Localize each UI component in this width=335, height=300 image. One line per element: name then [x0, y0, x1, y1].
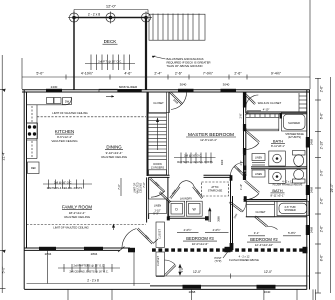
svg-text:5'-3": 5'-3"	[153, 212, 159, 216]
svg-text:4'-0½": 4'-0½"	[213, 228, 221, 232]
svg-text:2'-4": 2'-4"	[154, 72, 162, 76]
svg-text:7'-6": 7'-6"	[117, 184, 121, 190]
right dimension lines	[315, 77, 334, 293]
deck top rail	[74, 17, 146, 19]
svg-text:BATH: BATH	[273, 139, 283, 144]
svg-text:2x8 @ 16" O.C.: 2x8 @ 16" O.C.	[184, 153, 202, 157]
bedroom2 closet	[247, 201, 275, 217]
svg-text:2'-6": 2'-6"	[320, 197, 324, 204]
deck post middle	[105, 12, 117, 24]
deck post right	[140, 12, 152, 24]
svg-text:RAFTERS & CEILING JOISTS: RAFTERS & CEILING JOISTS	[47, 186, 83, 190]
svg-text:10'-0"x11'-6": 10'-0"x11'-6"	[192, 242, 209, 246]
svg-text:CLOSET: CLOSET	[157, 256, 160, 266]
attic staircase	[202, 182, 229, 196]
svg-text:VAULTED CEILING: VAULTED CEILING	[51, 139, 78, 143]
svg-text:DW: DW	[65, 100, 70, 104]
exterior walls	[22, 90, 310, 290]
bedroom3/2 wall	[231, 175, 233, 250]
hall west wall	[146, 177, 148, 222]
bath2 door diagonal	[245, 180, 260, 199]
svg-text:12'-0": 12'-0"	[264, 270, 272, 274]
bedroom3 door leaf	[209, 208, 211, 222]
top wall	[22, 89, 310, 91]
svg-text:2x8 P.T. @ 16" O.C.: 2x8 P.T. @ 16" O.C.	[98, 59, 122, 63]
svg-text:2468: 2468	[310, 138, 314, 145]
svg-text:FAMILY ROOM: FAMILY ROOM	[62, 205, 92, 210]
svg-text:WALK-IN CLOSET: WALK-IN CLOSET	[258, 101, 282, 105]
svg-text:THAN 30" ABOVE GROUND: THAN 30" ABOVE GROUND	[167, 64, 203, 68]
windows family room bottom wall	[39, 247, 103, 251]
right wall	[306, 90, 308, 290]
svg-text:2x8 RAFTERS @ 16" O.C.: 2x8 RAFTERS @ 16" O.C.	[74, 264, 105, 268]
svg-text:SHOWER: SHOWER	[284, 209, 295, 212]
linen cabinets	[252, 154, 265, 178]
windows on top wall	[46, 89, 236, 93]
bottom wall right part	[150, 285, 307, 287]
svg-text:3020: 3020	[221, 159, 224, 165]
svg-text:ATTIC: ATTIC	[211, 185, 218, 189]
svg-text:KITCHEN: KITCHEN	[55, 129, 74, 134]
bedroom2 top walls	[246, 216, 307, 218]
deck post left	[68, 12, 80, 24]
svg-text:RAFTERS & CEILING JOISTS: RAFTERS & CEILING JOISTS	[177, 160, 213, 164]
svg-text:2'-6": 2'-6"	[239, 113, 242, 118]
bedroom2 closet door	[255, 216, 278, 230]
svg-text:BATH: BATH	[272, 188, 282, 193]
svg-text:SHOWER: SHOWER	[288, 121, 300, 125]
svg-text:LIMIT OF VAULTED CEILING: LIMIT OF VAULTED CEILING	[53, 226, 89, 230]
bath1 sink vanity	[269, 151, 286, 166]
foyer closets	[156, 222, 165, 276]
deck dimension line 12'-0"	[74, 4, 148, 16]
interior stairs treads	[149, 92, 169, 175]
rafter note family room upper	[43, 180, 92, 189]
svg-text:7'-6": 7'-6"	[142, 182, 146, 188]
svg-text:4'-0½": 4'-0½"	[184, 228, 192, 232]
svg-text:2868: 2868	[189, 290, 196, 294]
svg-text:2'-8": 2'-8"	[181, 267, 184, 272]
deck right edge wall	[145, 18, 147, 91]
svg-text:(42"UNITS): (42"UNITS)	[288, 136, 301, 139]
svg-text:2'-10": 2'-10"	[240, 184, 243, 190]
svg-text:5'-8½": 5'-8½"	[288, 231, 296, 235]
svg-text:2804: 2804	[45, 252, 52, 256]
svg-text:LIMIT OF VAULTED CEILING: LIMIT OF VAULTED CEILING	[52, 111, 88, 115]
svg-text:5'-0": 5'-0"	[1, 266, 5, 274]
bedroom2 door	[229, 199, 246, 213]
stairwell left wall	[147, 92, 149, 176]
grade lines below bottom wall	[48, 250, 316, 300]
svg-text:7'-0½": 7'-0½"	[203, 72, 214, 76]
kitchen	[27, 97, 72, 159]
windows right wall	[306, 137, 310, 235]
beam dashed wall	[128, 247, 308, 254]
svg-text:9'-4½": 9'-4½"	[271, 72, 282, 76]
svg-text:2 - 2 x 8: 2 - 2 x 8	[88, 13, 100, 17]
svg-text:2'-6": 2'-6"	[175, 72, 183, 76]
deck joist note	[85, 55, 135, 71]
deck left edge wall	[73, 18, 75, 91]
balusters note	[152, 56, 211, 68]
master bedroom entry door	[170, 92, 187, 110]
svg-text:5'-0": 5'-0"	[36, 72, 44, 76]
svg-text:LINEN: LINEN	[255, 157, 262, 160]
hall doors near linen	[150, 178, 172, 203]
rafter note master	[174, 153, 216, 164]
svg-text:21'-4": 21'-4"	[1, 151, 5, 160]
closet shelves	[246, 114, 279, 131]
svg-text:2468: 2468	[310, 186, 314, 193]
fridge	[28, 162, 40, 174]
svg-text:13 RISERS: 13 RISERS	[151, 166, 165, 170]
left dimension line	[0, 55, 6, 293]
wall above closet/tub row	[244, 199, 307, 201]
svg-text:FLUSH FRAMED ABOVE: FLUSH FRAMED ABOVE	[273, 183, 303, 187]
laundry double doors	[170, 181, 203, 199]
rafter note family room lower	[58, 264, 120, 272]
limit of vaulted ceiling (family)	[27, 224, 147, 226]
svg-text:2430: 2430	[51, 85, 58, 89]
laundry front wall	[168, 217, 206, 219]
bath1 door diagonal	[245, 130, 260, 150]
svg-text:DOWN: DOWN	[153, 162, 161, 166]
master closet door arc	[246, 94, 259, 107]
svg-text:6'-6": 6'-6"	[320, 112, 324, 119]
svg-text:2468: 2468	[310, 226, 314, 233]
svg-text:2'-6": 2'-6"	[320, 85, 324, 92]
svg-text:3040: 3040	[223, 82, 230, 86]
svg-text:CLOSET: CLOSET	[255, 211, 265, 214]
svg-text:DINING: DINING	[106, 145, 122, 150]
left wall	[23, 90, 25, 289]
shower	[282, 113, 307, 132]
svg-text:4'-10½": 4'-10½"	[81, 72, 94, 76]
svg-text:3040: 3040	[264, 290, 271, 294]
svg-text:2x6 CEILING JOISTS @ 16" O.C.: 2x6 CEILING JOISTS @ 16" O.C.	[69, 270, 108, 274]
svg-text:3040: 3040	[180, 82, 187, 86]
svg-text:8'-11"x5'-1": 8'-11"x5'-1"	[271, 193, 285, 197]
svg-text:CLOSET: CLOSET	[153, 101, 164, 105]
svg-text:12'-0": 12'-0"	[106, 4, 117, 9]
svg-text:VAULTED CEILING: VAULTED CEILING	[64, 215, 91, 219]
svg-text:LINEN: LINEN	[154, 205, 162, 208]
svg-text:2'-10": 2'-10"	[320, 140, 324, 149]
bath2 toilet	[293, 170, 306, 184]
svg-text:12'-0": 12'-0"	[193, 270, 201, 274]
deck	[68, 12, 152, 91]
stair closet	[149, 92, 170, 113]
svg-text:2'-6": 2'-6"	[320, 225, 324, 232]
stove	[27, 123, 38, 139]
svg-text:4'-6": 4'-6"	[124, 72, 132, 76]
svg-text:2804: 2804	[91, 252, 98, 256]
windows bottom wall	[183, 285, 276, 289]
svg-text:3'-1": 3'-1"	[254, 231, 260, 235]
svg-text:STAIRCASE: STAIRCASE	[208, 189, 223, 193]
svg-text:4'-10": 4'-10"	[263, 108, 270, 112]
closet door to hall	[164, 260, 181, 276]
bottom interior dim lines	[160, 274, 310, 279]
linen closet	[149, 199, 167, 214]
svg-text:BEDROOM #2: BEDROOM #2	[250, 237, 278, 242]
svg-text:BEDROOM #3: BEDROOM #3	[186, 236, 214, 241]
tub	[277, 201, 309, 215]
svg-text:6068 SLIDER: 6068 SLIDER	[119, 85, 138, 89]
svg-text:REF: REF	[31, 167, 36, 170]
svg-text:8'-6": 8'-6"	[320, 254, 324, 261]
master bottom wall	[149, 175, 232, 177]
limit of vaulted ceiling (kitchen)	[37, 116, 146, 118]
svg-text:12'-4"x10'-10": 12'-4"x10'-10"	[255, 243, 273, 247]
master SE corner door	[231, 163, 245, 176]
svg-text:3'-0": 3'-0"	[320, 169, 324, 176]
wall between baths	[251, 166, 307, 168]
svg-text:FLUSH FRAMED ABOVE: FLUSH FRAMED ABOVE	[229, 258, 259, 262]
svg-text:2x8 @ 16" O.C.: 2x8 @ 16" O.C.	[54, 180, 72, 184]
top main dimension line	[22, 0, 310, 89]
svg-text:12'-6"x13'-4": 12'-6"x13'-4"	[200, 138, 217, 142]
svg-text:29'-0": 29'-0"	[330, 183, 334, 192]
svg-text:DECK: DECK	[104, 39, 118, 44]
svg-text:8'-11"x8'-1": 8'-11"x8'-1"	[271, 144, 285, 148]
svg-text:2'-6": 2'-6"	[234, 72, 242, 76]
svg-text:2668: 2668	[218, 216, 221, 222]
family room corner door	[118, 228, 158, 252]
bath2 sink vanity	[269, 170, 286, 184]
bath1 toilet	[293, 151, 306, 167]
svg-text:CLOSET: CLOSET	[158, 229, 161, 239]
svg-text:(TYP): (TYP)	[215, 259, 222, 263]
svg-text:2'-4": 2'-4"	[240, 160, 243, 165]
exterior stairs top right	[149, 14, 205, 41]
svg-text:LAUNDRY: LAUNDRY	[180, 197, 193, 201]
walk-in closet	[246, 111, 307, 113]
svg-text:2 - 2 x 8: 2 - 2 x 8	[87, 279, 99, 283]
bedroom3 dims	[177, 232, 229, 234]
svg-text:LINEN: LINEN	[255, 173, 262, 176]
master bedroom right wall	[244, 92, 246, 176]
svg-text:VAULTED CEILING: VAULTED CEILING	[101, 155, 128, 159]
slider open panel	[99, 89, 118, 92]
family room bottom wall	[24, 247, 130, 249]
